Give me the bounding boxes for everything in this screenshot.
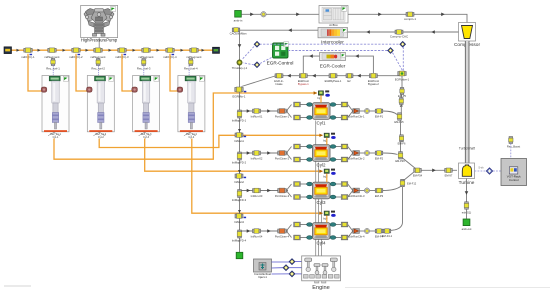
green run flag injector 3 bbox=[154, 76, 159, 81]
rail pipe railSegment-4 bbox=[190, 48, 198, 53]
flow arrow bbox=[355, 54, 359, 58]
svg-text:IntMan2: IntMan2 bbox=[234, 180, 244, 184]
intake valve lower row 2 bbox=[294, 157, 301, 162]
exhaust pipe EM-P1 to junction bbox=[383, 111, 397, 115]
signal diamond above EGRValve bbox=[400, 42, 405, 47]
wire EM-F54 to EM-97 bbox=[421, 169, 444, 171]
fuel line injector1 to Inj1 bbox=[54, 93, 317, 159]
exhaust pipe EM-P2 to junction bbox=[383, 153, 398, 155]
EGR pipe EGRMix to EGR-In-Intake bbox=[242, 76, 276, 87]
injector nozzle Inj1 bbox=[314, 91, 317, 94]
svg-text:EGR-Cooler: EGR-Cooler bbox=[320, 64, 346, 69]
exhaust merge row 2 bbox=[348, 147, 353, 154]
intake runner pipe row 4 bbox=[240, 230, 289, 232]
junction EM-F4-1 bbox=[383, 229, 391, 234]
port PortClose-3 bbox=[278, 188, 287, 193]
flow arrow on intake manifold bbox=[238, 129, 241, 132]
intake valve lower row 3 bbox=[294, 195, 301, 200]
fuel feed drop to injector 1 bbox=[28, 54, 43, 91]
rail pipe railSegment-3 bbox=[142, 48, 150, 53]
flow arrow bbox=[267, 189, 271, 193]
svg-text:IntRun-03: IntRun-03 bbox=[251, 194, 263, 198]
EGR-Control controller box bbox=[273, 43, 289, 58]
exhaust port connector upper row 3 bbox=[330, 183, 342, 185]
flow arrow on rail bbox=[63, 49, 66, 52]
intercooler box bbox=[318, 28, 348, 38]
intake manifold main pipe bbox=[239, 32, 241, 255]
intake port connector lower row 3 bbox=[300, 196, 312, 198]
exhaust valve lower row 1 bbox=[341, 115, 348, 120]
EGR pipe valve to exhaust tap bbox=[401, 76, 403, 88]
exhaust port connector upper row 1 bbox=[330, 104, 342, 106]
exhaust merge row 3 bbox=[348, 184, 353, 191]
wire pump to rail bbox=[98, 38, 100, 48]
svg-text:ExhRunCib-2: ExhRunCib-2 bbox=[349, 156, 365, 160]
faint ruler line right bbox=[345, 287, 550, 289]
exhaust valve upper row 3 bbox=[341, 182, 348, 187]
wire runner to orifice row 1 bbox=[359, 110, 364, 112]
svg-text:EGRMix-1: EGRMix-1 bbox=[233, 95, 246, 99]
compressor impeller icon bbox=[462, 26, 473, 39]
exhaust valve upper row 4 bbox=[341, 222, 348, 227]
fuel drop Inj2 to Cyl2 bbox=[326, 138, 328, 145]
sensor Rec_fuel-1 bbox=[51, 59, 55, 66]
flow arrow on intake manifold bbox=[238, 170, 241, 173]
wire runner to orifice row 3 bbox=[359, 190, 364, 192]
signal diamond fuel 1 bbox=[289, 259, 294, 264]
wire amb-in to AirBox bbox=[242, 13, 319, 15]
intake valve lower row 1 bbox=[294, 115, 301, 120]
svg-text:Cyl1: Cyl1 bbox=[316, 120, 325, 125]
flow arrow on rail bbox=[202, 49, 205, 52]
svg-text:ExhRunCib-3: ExhRunCib-3 bbox=[349, 194, 365, 198]
wire turbine outlet bbox=[466, 179, 468, 203]
rail end cap bbox=[213, 47, 220, 53]
exhaust valve lower row 3 bbox=[341, 195, 348, 200]
intake runner pipe row 3 bbox=[240, 190, 289, 192]
flow arrow on rail bbox=[86, 49, 89, 52]
ambient inlet amb-in bbox=[235, 11, 242, 18]
wire orifice to EM-P1 bbox=[370, 110, 376, 112]
exhaust port connector lower row 3 bbox=[330, 196, 342, 198]
runner IntRun-01 bbox=[253, 109, 261, 114]
fuel feed drop to injector 2 bbox=[76, 54, 88, 91]
svg-text:EM-97: EM-97 bbox=[445, 173, 453, 177]
sensor Rec_Boost bbox=[509, 137, 513, 144]
intake fork row 3 bbox=[286, 184, 291, 191]
flow arrow on rail bbox=[157, 49, 160, 52]
intake port connector lower row 1 bbox=[300, 117, 312, 119]
fuel feed drop to injector 4 bbox=[170, 54, 179, 91]
injector unit Inj_Cyl-4 bbox=[177, 76, 205, 132]
rail pipe railSegment-2 bbox=[94, 48, 102, 53]
flow arrow bbox=[378, 13, 382, 17]
svg-text:Engine: Engine bbox=[312, 285, 329, 291]
intake fork row 4 bbox=[286, 225, 291, 232]
flow arrow on intake manifold bbox=[238, 210, 241, 213]
signal wire controller out3 bbox=[272, 273, 290, 275]
rail pipe railSegment-1 bbox=[48, 48, 56, 53]
exhaust runner ExhRunCib-3 bbox=[353, 188, 360, 193]
flow arrow on rail bbox=[17, 49, 20, 52]
signal wire controller out1 bbox=[272, 261, 290, 263]
svg-text:Rec_Boost: Rec_Boost bbox=[507, 144, 520, 148]
intake fork row 2 bbox=[286, 147, 291, 154]
junction EM-F15 bbox=[397, 113, 402, 120]
svg-text:PortClose-4: PortClose-4 bbox=[275, 234, 290, 238]
svg-text:EM-P1: EM-P1 bbox=[375, 114, 384, 118]
svg-text:Bypass-1: Bypass-1 bbox=[298, 82, 309, 86]
flow arrow bbox=[288, 28, 292, 32]
exhaust port connector lower row 2 bbox=[330, 159, 342, 161]
wire compressor to Comp-to-CAC bbox=[403, 31, 459, 33]
flow arrow bbox=[247, 151, 251, 155]
intake port connector upper row 1 bbox=[300, 104, 312, 106]
rail junction railOr(C)-3 bbox=[118, 48, 126, 53]
cylinder Cyl4 bbox=[313, 223, 331, 240]
svg-text:Cyl4: Cyl4 bbox=[316, 240, 325, 245]
fuel feed drop to injector 3 bbox=[122, 54, 134, 91]
controller VGT-Rack-Control box bbox=[501, 159, 527, 186]
svg-text:EM-F54: EM-F54 bbox=[413, 173, 423, 177]
runner IntRun-02 bbox=[253, 151, 261, 156]
svg-text:IntMapFD-1: IntMapFD-1 bbox=[232, 118, 247, 122]
orifice row 3 bbox=[364, 188, 369, 193]
flow arrow bbox=[267, 151, 271, 155]
green run flag injector 4 bbox=[199, 76, 204, 81]
rail junction railOr(C)-2 bbox=[72, 48, 80, 53]
intake runner pipe row 1 bbox=[240, 110, 289, 112]
sensor Rec_fuel-2 bbox=[96, 59, 100, 66]
manifold volume IntMan2 bbox=[235, 174, 243, 179]
port PortClose-4 bbox=[278, 229, 287, 234]
exhaust valve lower row 4 bbox=[341, 235, 348, 240]
svg-text:IntMan1: IntMan1 bbox=[234, 139, 244, 143]
wire runner to orifice row 2 bbox=[359, 152, 364, 154]
exhaust valve lower row 2 bbox=[341, 157, 348, 162]
flow arrow bbox=[366, 30, 370, 34]
wire orifice to EM-P4 bbox=[370, 230, 376, 232]
green run flag on pump bbox=[111, 7, 116, 12]
intake port connector upper row 3 bbox=[300, 183, 312, 185]
orifice row 2 bbox=[364, 150, 369, 155]
pump HighPressurePump bbox=[81, 5, 118, 37]
intake port connector lower row 2 bbox=[300, 159, 312, 161]
junction EM-P26 bbox=[398, 152, 403, 159]
exhaust runner ExhRunCib-1 bbox=[353, 109, 360, 114]
intake valve upper row 1 bbox=[294, 102, 301, 107]
wire Intercooler to CACtoIntMan bbox=[240, 29, 319, 31]
green run flag EGR-Cooler bbox=[341, 53, 346, 58]
flow arrow bbox=[247, 229, 251, 233]
svg-text:PortClose-1: PortClose-1 bbox=[275, 114, 290, 118]
signal wire to engine 2 bbox=[289, 267, 302, 269]
flow arrow bbox=[267, 229, 271, 233]
orifice row 1 bbox=[364, 108, 369, 113]
node Comp-to-CAC bbox=[395, 30, 403, 35]
green run flag EGR-Control bbox=[284, 42, 289, 47]
EGR bypass main pipe bbox=[275, 75, 402, 77]
wire EM-P4 to EM-F4-1 bbox=[382, 230, 384, 232]
rail junction railOr(C)-4 bbox=[166, 48, 174, 53]
wire Comp-to-CAC to Intercooler bbox=[348, 31, 396, 33]
flow arrow bbox=[309, 54, 313, 58]
exhaust pipe EM-F12 up to EM-F54 bbox=[404, 172, 415, 181]
flow arrow bbox=[267, 109, 271, 113]
orifice row 4 bbox=[364, 228, 369, 233]
intake end cap bbox=[236, 252, 243, 258]
fuel drop Inj4 to Cyl4 bbox=[326, 216, 328, 223]
green run flag injector 2 bbox=[109, 76, 114, 81]
signal wire EGR-Control bus bbox=[260, 43, 401, 45]
injector unit Inj_Cyl-1 bbox=[41, 76, 69, 132]
signal wire turbine to diamond bbox=[475, 170, 487, 172]
cylinder Cyl2 bbox=[313, 145, 331, 162]
svg-text:PortClose-3: PortClose-3 bbox=[275, 194, 290, 198]
exhaust port connector lower row 1 bbox=[330, 117, 342, 119]
controller ControllerFuelInj box bbox=[254, 259, 272, 272]
fuel drop Inj3 to Cyl3 bbox=[326, 174, 328, 183]
node EGR-In-Intake bbox=[275, 73, 283, 78]
svg-text:IntMapFD-4: IntMapFD-4 bbox=[232, 238, 247, 242]
signal link Rec_fuel-4 to injector bbox=[188, 66, 190, 77]
exhaust pipe EM-P3 to junction bbox=[383, 187, 401, 191]
exhaust pipe to EM-F54 bbox=[403, 158, 416, 169]
flow arrow bbox=[247, 189, 251, 193]
flow arrow bbox=[432, 169, 436, 173]
node EM-P1 bbox=[375, 109, 383, 114]
fuel rail supply line bbox=[11, 49, 213, 51]
turbo shaft bbox=[465, 41, 469, 163]
signal wire diamond to VGT control bbox=[493, 170, 501, 172]
injector unit Inj_Cyl-2 bbox=[87, 76, 115, 132]
wire runner to orifice row 4 bbox=[359, 230, 364, 232]
manifold tap IntMapFD-2 bbox=[237, 152, 242, 160]
svg-text:IntMan3: IntMan3 bbox=[234, 220, 244, 224]
svg-text:compin-1: compin-1 bbox=[404, 17, 416, 21]
flow arrow on rail bbox=[133, 49, 136, 52]
svg-text:railSegment: railSegment bbox=[139, 55, 154, 59]
turbine box bbox=[459, 163, 475, 179]
signal diamond near throttle lower bbox=[254, 62, 259, 67]
flow arrow bbox=[238, 44, 242, 48]
intake valve upper row 3 bbox=[294, 182, 301, 187]
svg-text:AirBox: AirBox bbox=[329, 23, 338, 27]
svg-text:EM-F6: EM-F6 bbox=[398, 141, 406, 145]
mixer EGRMix-1 bbox=[235, 87, 243, 92]
exhaust manifold lower pipe bbox=[391, 187, 403, 231]
svg-text:railSegment: railSegment bbox=[45, 55, 60, 59]
flow arrow bbox=[431, 30, 435, 34]
signal wire lower diamond to EGR-Control bbox=[260, 57, 273, 64]
svg-text:Throttle{+}-1: Throttle{+}-1 bbox=[232, 66, 248, 70]
intake port connector upper row 4 bbox=[300, 224, 312, 226]
svg-text:EM-F12: EM-F12 bbox=[407, 182, 417, 186]
node E2 bbox=[346, 73, 353, 78]
flow arrow bbox=[465, 191, 469, 195]
svg-text:EM-F15: EM-F15 bbox=[394, 120, 404, 124]
manifold volume IntMan3 bbox=[235, 214, 243, 219]
wire AirBox to compressor inlet bbox=[348, 14, 467, 22]
exhaust merge row 4 bbox=[348, 225, 353, 232]
svg-text:railSegment: railSegment bbox=[187, 55, 202, 59]
svg-text:IntMapFD-2: IntMapFD-2 bbox=[232, 160, 247, 164]
svg-text:Intake: Intake bbox=[275, 82, 283, 86]
flow arrow bbox=[250, 13, 254, 17]
intake valve upper row 4 bbox=[294, 222, 301, 227]
flow arrow bbox=[312, 74, 316, 78]
signal link Rec_fuel-2 to injector bbox=[98, 66, 100, 77]
flow arrow bbox=[287, 74, 291, 78]
svg-text:HighPressurePump: HighPressurePump bbox=[81, 37, 118, 42]
crank connection rod Cyl1-Engine bbox=[315, 121, 317, 256]
svg-text:ExhRunCib-4: ExhRunCib-4 bbox=[349, 234, 365, 238]
compressor box bbox=[459, 23, 476, 42]
flow arrow bbox=[441, 13, 445, 17]
junction EM-F54 bbox=[414, 168, 422, 173]
signal wire diamond to throttle lower bbox=[243, 63, 254, 65]
sensor Rec_fuel-3 bbox=[142, 59, 146, 66]
svg-text:Bypass-2: Bypass-2 bbox=[368, 82, 379, 86]
flow arrow on rail bbox=[109, 49, 112, 52]
manifold tap IntMapFD-1 bbox=[237, 110, 242, 118]
svg-text:Cyl2: Cyl2 bbox=[316, 162, 325, 167]
svg-text:EGR-Control: EGR-Control bbox=[267, 61, 294, 66]
wire orifice to EM-P2 bbox=[370, 152, 376, 154]
signal wire diamond to throttle upper bbox=[242, 47, 254, 60]
exhaust port connector lower row 4 bbox=[330, 237, 342, 239]
flow arrow on rail bbox=[181, 49, 184, 52]
svg-text:IntRun-02: IntRun-02 bbox=[251, 156, 263, 160]
node EGRCool-Bypass-1 bbox=[299, 73, 307, 78]
injector unit Inj_Cyl-3 bbox=[132, 76, 160, 132]
intake valve upper row 2 bbox=[294, 144, 301, 149]
signal wire controller out2 bbox=[272, 267, 284, 269]
green run flag Intercooler bbox=[342, 28, 347, 33]
signal diamond near throttle upper bbox=[254, 42, 259, 47]
ambient outlet amb-out bbox=[463, 219, 470, 226]
svg-text:Cyl3: Cyl3 bbox=[316, 200, 325, 205]
injector nozzle Inj3 bbox=[319, 170, 322, 173]
signal diamond fuel 2 bbox=[283, 265, 288, 270]
svg-text:Comp-to-CAC: Comp-to-CAC bbox=[390, 35, 408, 39]
EGR-Cooler box bbox=[320, 53, 346, 61]
svg-text:Rec_fuel-4: Rec_fuel-4 bbox=[184, 66, 198, 70]
signal link Rec_fuel-1 to injector bbox=[52, 66, 54, 77]
node EGRByPass-1 bbox=[329, 73, 337, 78]
injector nozzle Inj2 bbox=[319, 134, 322, 137]
fuel line injector2 to Inj2 bbox=[99, 135, 322, 147]
svg-text:E2: E2 bbox=[347, 79, 351, 83]
flow arrow on rail bbox=[38, 49, 41, 52]
EGR cooler left leg bbox=[303, 56, 319, 73]
EGR cooler right leg bbox=[346, 56, 374, 73]
faint ruler line left bbox=[4, 285, 31, 287]
node E5 bbox=[399, 98, 403, 105]
intake valve lower row 4 bbox=[294, 235, 301, 240]
wire EM-97 to turbine bbox=[452, 169, 457, 171]
throttle Throttle(+)-1 bbox=[237, 60, 242, 65]
crank connection rod Cyl3-Engine bbox=[320, 200, 322, 256]
wire exh to amb-out bbox=[466, 209, 468, 219]
exhaust valve upper row 1 bbox=[341, 102, 348, 107]
manifold tap IntMapFD-4 bbox=[237, 230, 242, 238]
branch marks under injector 4 bbox=[184, 132, 190, 136]
runner IntRun-03 bbox=[253, 188, 261, 193]
branch marks under injector 3 bbox=[139, 132, 145, 136]
svg-text:EM-P2: EM-P2 bbox=[375, 156, 384, 160]
node EM-P2 bbox=[375, 151, 383, 156]
signal diamond end of lower bus bbox=[388, 48, 393, 53]
svg-text:CACtoIntMan: CACtoIntMan bbox=[230, 32, 247, 36]
node exh(S1) bbox=[464, 202, 469, 209]
port PortClose-1 bbox=[278, 109, 287, 114]
signal wire to engine 1 bbox=[295, 261, 302, 263]
svg-text:amb-out: amb-out bbox=[462, 227, 472, 231]
intake runner pipe row 2 bbox=[240, 152, 289, 154]
injector nozzle Inj4 bbox=[319, 212, 322, 215]
svg-text:amb-in: amb-in bbox=[234, 18, 243, 22]
exhaust runner ExhRunCib-4 bbox=[353, 229, 360, 234]
rail junction railOr(C)-1 bbox=[24, 48, 32, 53]
signal wire diamond to EGRValve diagonal bbox=[393, 53, 403, 71]
svg-text:EGRByPass-1: EGRByPass-1 bbox=[325, 79, 342, 83]
turbine wheel icon bbox=[462, 165, 471, 176]
node EM-F6 bbox=[399, 135, 403, 142]
flow arrow bbox=[296, 13, 300, 17]
valve EGRValve-1 bbox=[398, 71, 406, 76]
node compin-1 bbox=[406, 12, 414, 17]
fuel drop Inj1 to Cyl1 bbox=[320, 95, 322, 102]
svg-text:EM-F4-1: EM-F4-1 bbox=[382, 234, 393, 238]
branch marks under injector 1 bbox=[48, 132, 54, 136]
signal diamond turbine rack bbox=[487, 168, 493, 174]
fuel line injector4 to Inj4 bbox=[192, 139, 323, 214]
signal diamond fuel 3 bbox=[289, 271, 294, 276]
flow arrow bbox=[357, 74, 361, 78]
node EM-P4 bbox=[375, 229, 383, 234]
fuel line injector3 to Inj3 bbox=[145, 139, 323, 172]
svg-text:IntMapFD-3: IntMapFD-3 bbox=[232, 198, 247, 202]
manifold volume IntMan1 bbox=[235, 133, 243, 138]
exhaust merge row 1 bbox=[348, 105, 353, 112]
manifold tap IntMapFD-3 bbox=[237, 190, 242, 198]
port PortClose-2 bbox=[278, 151, 287, 156]
crank connection rod Cyl2-Engine bbox=[318, 163, 320, 256]
AirBox volume bbox=[319, 6, 348, 24]
node EM-F5 bbox=[400, 88, 404, 95]
node CACtoIntMan bbox=[232, 28, 240, 32]
green run flag AirBox bbox=[342, 6, 347, 11]
svg-text:PortClose-2: PortClose-2 bbox=[275, 156, 290, 160]
node EGRCool-Bypass-2 bbox=[369, 73, 377, 78]
green run flag injector 1 bbox=[63, 76, 68, 81]
exhaust valve upper row 2 bbox=[341, 144, 348, 149]
exhaust manifold pipe down bbox=[400, 120, 402, 152]
svg-text:S-trb: S-trb bbox=[478, 166, 484, 169]
svg-text:IntRun-01: IntRun-01 bbox=[251, 114, 263, 118]
sensor Rec_fuel-4 bbox=[189, 59, 193, 66]
svg-text:E5: E5 bbox=[400, 104, 404, 108]
intake fork row 1 bbox=[286, 105, 291, 112]
cylinder Cyl1 bbox=[313, 103, 331, 120]
signal wire to engine 3 bbox=[295, 273, 302, 275]
signal wire diamond to EGRValve bbox=[402, 47, 404, 71]
flow arrow bbox=[247, 109, 251, 113]
node EM-P3 bbox=[375, 188, 383, 193]
signal wire EGR-Control lower bus bbox=[288, 50, 388, 52]
svg-text:TurboShaft: TurboShaft bbox=[459, 147, 475, 151]
